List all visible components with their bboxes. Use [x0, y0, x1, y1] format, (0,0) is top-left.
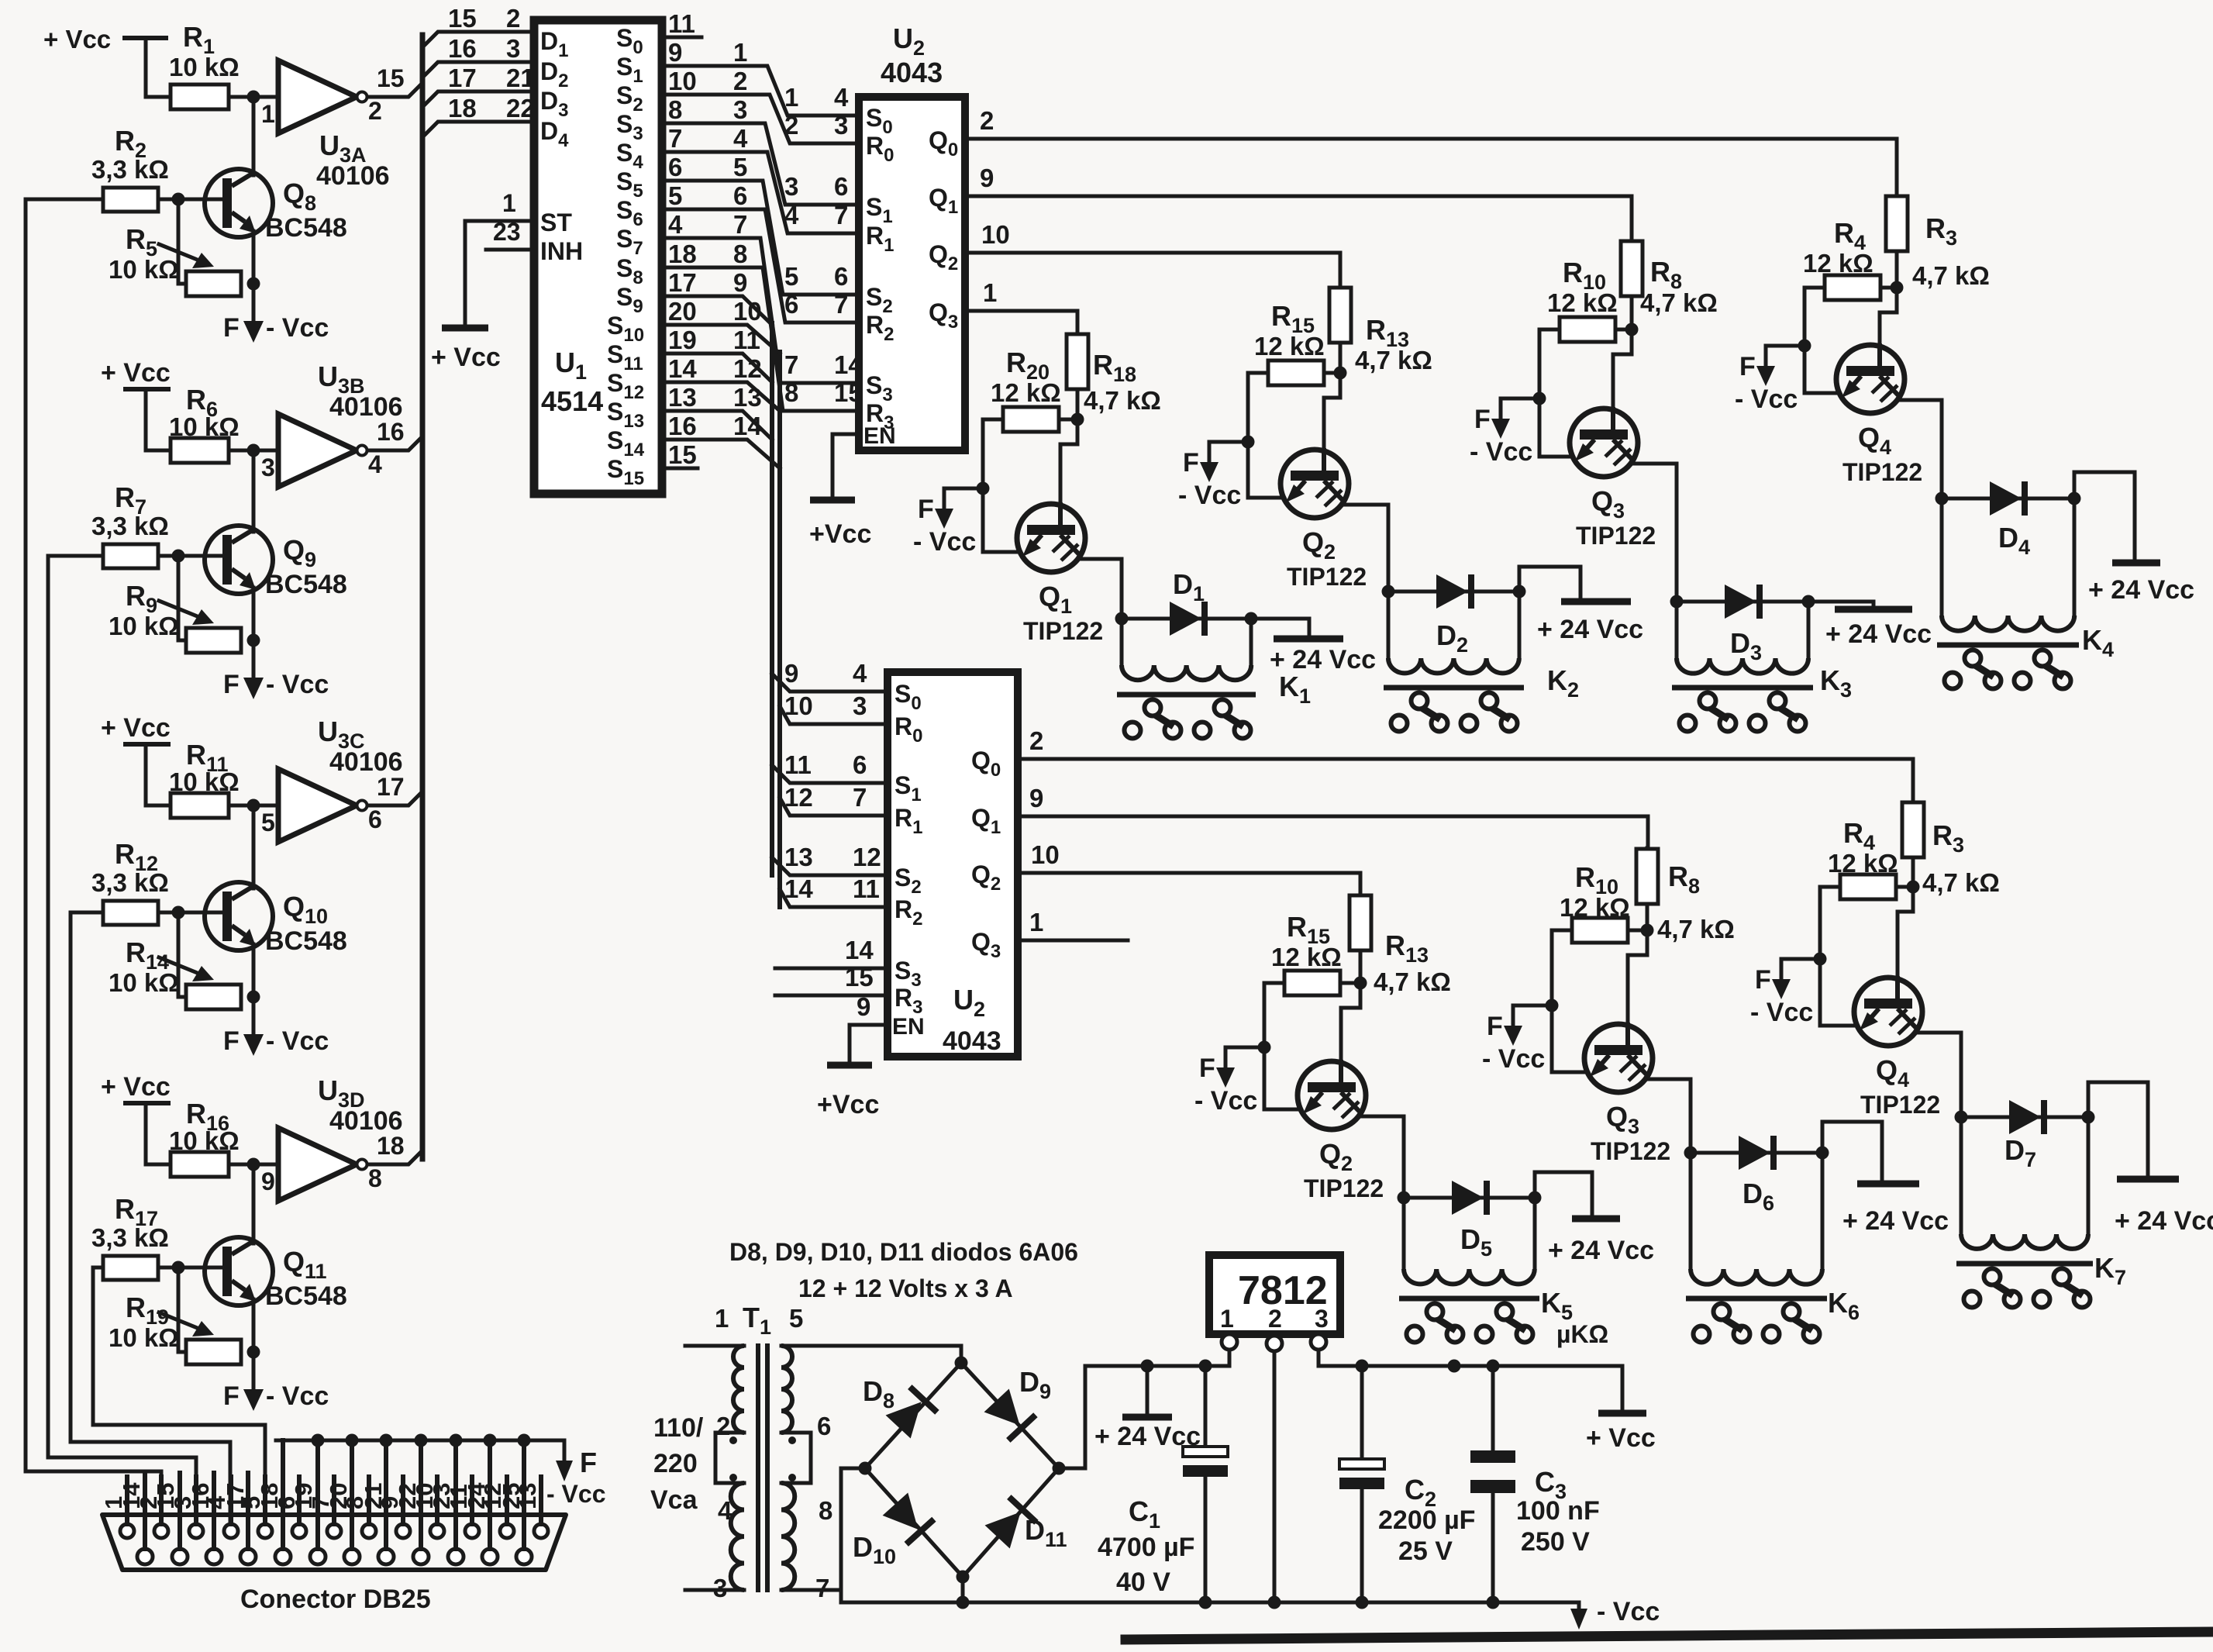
wire base junction down to R9: [178, 556, 186, 640]
svg-text:16: 16: [187, 1483, 214, 1509]
node T1 secondary dots: [788, 1436, 796, 1481]
pin S6 label U1: [616, 196, 643, 230]
node ground pin 22 DB25: [415, 1434, 428, 1447]
wire to +24 ground ch5: [1535, 1172, 1592, 1215]
relay K1 contacts: [1125, 700, 1251, 739]
transformer T1 core: [758, 1346, 767, 1590]
svg-text:3: 3: [733, 95, 747, 124]
svg-text:6: 6: [834, 172, 848, 201]
node base junction Q8: [172, 193, 185, 206]
wire emitter Q9 down: [252, 588, 256, 674]
pin 9 DB25: [376, 1477, 410, 1538]
wire number 4 (S4 line): [733, 124, 748, 153]
node bottom rail C2: [1356, 1596, 1369, 1609]
pin S0 label U2b: [895, 680, 922, 714]
pin S10 label U1: [607, 312, 644, 346]
resistor R18 labels ch1: [1084, 349, 1161, 415]
svg-text:3,3 kΩ: 3,3 kΩ: [91, 1223, 169, 1252]
pin R1 label U2a: [866, 222, 894, 256]
svg-text:12 + 12 Volts x 3 A: 12 + 12 Volts x 3 A: [798, 1274, 1013, 1302]
relay K6 contacts: [1694, 1304, 1820, 1343]
pin 11 DB25: [445, 1477, 479, 1538]
pin Q1 label U2b: [971, 804, 1001, 838]
resistor R4 labels ch7: [1828, 817, 1898, 878]
svg-text:F: F: [223, 1381, 240, 1411]
node rail/C2 junction: [1356, 1360, 1369, 1373]
resistor R1 label: [169, 21, 240, 81]
pin number Q2 U2b: [1031, 840, 1060, 869]
inverter U3C: [278, 769, 367, 842]
pin 5 DB25: [238, 1477, 272, 1538]
wire number 8 (S8 line): [733, 240, 747, 268]
svg-text:5: 5: [668, 181, 682, 210]
wire bridge edge R-B: [963, 1468, 1059, 1577]
ground F -Vcc (block C): [223, 1026, 329, 1056]
resistor R10 ch6 (12k): [1572, 918, 1628, 943]
resistor R15 ch5 (12k): [1284, 971, 1340, 995]
transistor Q10: [205, 882, 273, 950]
wire Q1 bus U2b to R8 ch6: [1018, 816, 1648, 849]
wire base junction down to R14: [178, 912, 186, 997]
svg-text:7: 7: [834, 290, 848, 319]
pin numbers S0 U2b: [784, 659, 867, 688]
svg-text:16: 16: [377, 418, 405, 446]
svg-text:3: 3: [506, 34, 520, 63]
ground +24 Vcc (C1): [1094, 1366, 1201, 1451]
wire +Vcc to R11: [146, 744, 171, 805]
diode D2 label: [1436, 619, 1468, 657]
diode D6 label: [1742, 1178, 1774, 1215]
resistor R3 ch4 (4,7k vertical): [1886, 196, 1908, 251]
relay K5 coil: [1399, 1269, 1539, 1298]
svg-text:F: F: [1487, 1012, 1503, 1041]
wire U3A output to vertical bus: [367, 83, 422, 97]
svg-text:- Vcc: - Vcc: [1482, 1044, 1545, 1074]
wire S2 to U2a: [662, 95, 859, 143]
wire to +24 ground ch4: [2074, 472, 2135, 559]
wire base to Q4 ch4: [1880, 288, 1897, 345]
wire R7 to base: [158, 554, 223, 558]
svg-text:3,3 kΩ: 3,3 kΩ: [91, 155, 169, 184]
inverter U3B: [278, 414, 367, 487]
transistor Q8: [205, 169, 273, 237]
pin labels T1 secondary: [815, 1412, 832, 1602]
pin 1 DB25: [100, 1477, 134, 1538]
svg-text:F: F: [1739, 352, 1756, 381]
node D4 anode junction: [1936, 492, 1949, 505]
wire S10 into bundle: [662, 325, 780, 354]
resistor R15 labels ch5: [1271, 911, 1342, 971]
relay K4 label: [2082, 624, 2114, 661]
svg-text:4,7 kΩ: 4,7 kΩ: [1657, 915, 1735, 943]
pin number S7 U1: [668, 210, 683, 239]
relay K5 contacts: [1407, 1304, 1533, 1343]
svg-text:17: 17: [448, 64, 477, 92]
pin 16 DB25: [187, 1473, 222, 1564]
wire to +24 ground ch7: [2088, 1082, 2148, 1175]
svg-text:23: 23: [493, 218, 521, 246]
wire R15 left to emitter rail ch5: [1264, 983, 1301, 1109]
node ground pin 20 DB25: [346, 1434, 359, 1447]
ground F -Vcc ch2: [1178, 442, 1248, 510]
resistor R14 (preset): [186, 985, 241, 1009]
wire R4 left to emitter rail ch4: [1805, 288, 1839, 393]
node D1 cathode junction: [1245, 612, 1258, 626]
ground bar +24 ch4: [2112, 560, 2160, 567]
resistor R8 ch6 (4,7k vertical): [1636, 849, 1658, 904]
node F junction ch4: [1798, 340, 1811, 353]
wire S0 stub: [662, 36, 701, 40]
svg-text:+ Vcc: + Vcc: [101, 713, 171, 743]
pin numbers R1 U2a: [784, 201, 848, 229]
svg-text:F: F: [1183, 448, 1199, 478]
wire bus pin4 (from R12): [71, 912, 230, 1524]
svg-text:21: 21: [360, 1483, 387, 1509]
wire R16 to inverter input: [229, 1163, 278, 1167]
wire T1 primary bottom lead: [685, 1588, 744, 1592]
svg-text:TIP122: TIP122: [1842, 458, 1922, 486]
svg-text:2: 2: [980, 106, 994, 135]
svg-text:13: 13: [733, 383, 762, 412]
pin number S13 U1: [668, 383, 697, 412]
svg-text:BC548: BC548: [265, 570, 347, 599]
ground bar +24 ch3: [1835, 606, 1912, 613]
pin numbers U3B output: [368, 418, 405, 478]
wire to +24 ground ch2: [1519, 567, 1580, 598]
wire bundle to U2b pin 4: [772, 857, 888, 875]
wire number 6 (S6 line): [733, 181, 747, 210]
transistor Q3 label ch6: [1591, 1101, 1670, 1165]
svg-text:15: 15: [448, 4, 477, 33]
svg-text:+ Vcc: + Vcc: [101, 358, 171, 388]
wire bridge right to +24 rail: [1059, 1366, 1229, 1468]
wire R4 to junction ch4: [1880, 286, 1897, 290]
wire 7812 pin2 to bottom rail: [1273, 1351, 1277, 1602]
svg-text:4514: 4514: [541, 385, 603, 417]
connector DB25 body: [102, 1515, 566, 1570]
transistor Q10 label: [265, 891, 347, 956]
resistor R8 labels ch3: [1640, 256, 1718, 317]
wire R17 to base: [158, 1266, 223, 1270]
node +24 Vcc label ch4: [2088, 575, 2194, 605]
pin 12 DB25: [479, 1477, 514, 1538]
pin number Q0 U2b: [1029, 726, 1043, 755]
relay K6 label: [1828, 1287, 1860, 1324]
resistor R16: [171, 1152, 229, 1177]
node base junction ch7: [1907, 881, 1920, 894]
wire collector Q3 to relay ch6: [1648, 1079, 1691, 1153]
svg-text:12: 12: [853, 843, 881, 871]
svg-text:15: 15: [377, 64, 405, 92]
pin numbers R3 U2a: [784, 378, 863, 407]
node inverter U3D input junction: [247, 1158, 275, 1196]
resistor R19 label: [109, 1292, 179, 1352]
wire S1 to U2a: [662, 66, 859, 116]
node inverter U3C input junction: [247, 799, 275, 837]
wire R3 to junction ch4: [1895, 251, 1899, 288]
wire +Vcc to R1: [146, 38, 171, 97]
ground F -Vcc ch7: [1750, 959, 1820, 1027]
pin numbers R1 U2b: [784, 783, 867, 812]
diode D1 ch1: [1122, 602, 1251, 636]
svg-text:220: 220: [653, 1449, 698, 1478]
pin number Q3 U2b: [1029, 908, 1043, 936]
node emitter/R9 junction: [247, 634, 260, 647]
relay K7 label: [2094, 1252, 2126, 1289]
svg-text:5: 5: [733, 153, 747, 181]
diode D3 label: [1730, 627, 1762, 664]
inverter U3D: [278, 1128, 367, 1201]
text diodes note: [729, 1238, 1078, 1266]
svg-text:TIP122: TIP122: [1023, 617, 1103, 645]
pin S3 label U1: [616, 110, 643, 144]
wire bundle to U2b pin 5: [780, 889, 888, 907]
wire relay K7 right lead: [2087, 1117, 2091, 1234]
pin number S12 U1: [668, 354, 697, 383]
wire relay K6 right lead: [1821, 1153, 1825, 1269]
svg-text:9: 9: [1029, 784, 1043, 812]
wire inverter output bus vertical: [420, 35, 426, 1159]
resistor R7 label: [91, 481, 169, 540]
pin S4 label U1: [616, 139, 643, 173]
wire bus pin3 (from R7): [48, 556, 196, 1524]
svg-text:100 nF: 100 nF: [1516, 1496, 1600, 1526]
wire number 11 (S11 line): [733, 326, 760, 354]
diode D8: [884, 1385, 939, 1440]
wire 7812 pin3 +Vcc rail: [1318, 1350, 1622, 1410]
svg-text:20: 20: [325, 1483, 352, 1509]
ground -Vcc arrow: [1570, 1597, 1660, 1630]
wire R20 to junction ch1: [1059, 418, 1077, 422]
diode D10: [881, 1492, 936, 1547]
node D5 cathode junction: [1529, 1192, 1542, 1205]
svg-text:Conector DB25: Conector DB25: [240, 1585, 431, 1614]
pin S3 U2b: [775, 936, 922, 991]
wire base to Q3 ch6: [1628, 930, 1647, 1024]
arrow R19 pointer: [159, 1312, 214, 1336]
wire bus pin2 (from R2): [26, 199, 161, 1524]
svg-text:2: 2: [506, 4, 520, 33]
diode D6 ch6: [1691, 1136, 1822, 1170]
svg-text:4043: 4043: [943, 1026, 1001, 1056]
resistor R4 labels ch4: [1803, 217, 1873, 278]
wire bus into R8 ch3: [1630, 240, 1634, 241]
pin number Q2 U2a: [981, 220, 1010, 249]
wire D3 line to U1: [422, 91, 534, 107]
svg-text:19: 19: [290, 1483, 317, 1509]
wire Q2 bus U2a to R13 ch2: [965, 253, 1340, 288]
wire S15 stub: [662, 467, 698, 471]
wire R2 to base: [158, 198, 223, 202]
resistor R20 labels ch1: [991, 347, 1061, 407]
svg-text:15: 15: [845, 963, 874, 992]
transistor Q2 label ch2: [1287, 526, 1367, 591]
svg-text:20: 20: [668, 297, 697, 326]
wire bus into R13 ch5: [1359, 895, 1363, 895]
svg-text:6: 6: [817, 1412, 831, 1440]
wire number 3 (S3 line): [733, 95, 747, 124]
wire R3 to junction ch7: [1911, 857, 1915, 887]
ground F -Vcc ch5: [1194, 1047, 1264, 1116]
relay K5 label: [1541, 1287, 1573, 1324]
wire bundle to U2b pin 3: [780, 798, 888, 816]
node +Vcc (block A): [43, 25, 166, 53]
pin R0 label U2b: [895, 712, 922, 747]
svg-text:F: F: [918, 495, 934, 524]
wire R10 left to emitter rail ch6: [1552, 930, 1587, 1072]
resistor R15 labels ch2: [1254, 300, 1325, 360]
svg-text:2: 2: [716, 1412, 730, 1440]
node F junction ch3: [1533, 392, 1546, 405]
pin S15 label U1: [607, 455, 644, 489]
pin Q0 label U2b: [971, 747, 1001, 781]
wire D1 line to U1: [422, 32, 534, 47]
relay K7 contacts: [1964, 1269, 2091, 1308]
node +Vcc (block D): [101, 1072, 171, 1103]
svg-text:F: F: [1199, 1054, 1215, 1083]
IC U2b (lower 4043) box: [888, 672, 1018, 1057]
pin 8 DB25: [341, 1477, 376, 1538]
arrow R9 pointer: [159, 601, 214, 625]
wire R8 to junction ch6: [1646, 904, 1649, 930]
ground bar +24 ch2: [1561, 598, 1631, 605]
transformer T1 secondary winding lower: [781, 1483, 795, 1590]
resistor R4 ch4 (12k): [1825, 275, 1880, 300]
node bottom rail pin2: [1268, 1596, 1281, 1609]
wire S9 into bundle: [662, 296, 772, 325]
ground +Vcc at U1 ST: [431, 221, 501, 372]
wire relay K6 left lead: [1689, 1153, 1693, 1269]
wire base to Q4 ch7: [1898, 887, 1913, 978]
pin numbers R2 U2a: [784, 290, 848, 319]
node D6 cathode junction: [1816, 1147, 1829, 1160]
svg-text:+Vcc: +Vcc: [809, 519, 871, 549]
transformer T1 secondary winding upper: [781, 1346, 792, 1433]
svg-text:TIP122: TIP122: [1860, 1091, 1940, 1119]
wire S3 to U2a: [662, 123, 859, 205]
wire bundle to U2b pin 2: [772, 765, 888, 783]
pin S2 label U2a: [866, 283, 893, 317]
svg-text:- Vcc: - Vcc: [266, 670, 329, 699]
pin 7 DB25: [307, 1477, 341, 1538]
transistor Q4 ch7 (TIP122): [1854, 976, 1922, 1046]
pin numbers U3A output: [368, 64, 405, 125]
op-amp U3D label: [318, 1074, 403, 1136]
wire R6 to inverter input: [229, 449, 278, 453]
wire U3C output to vertical bus: [367, 792, 422, 805]
svg-text:3: 3: [713, 1574, 727, 1602]
wire S12 into bundle: [662, 382, 780, 411]
wire bus into R8 ch6: [1646, 848, 1649, 849]
transformer T1 secondary tap bracket: [781, 1433, 811, 1483]
svg-text:14: 14: [834, 350, 863, 379]
wire number 13 (S13 line): [733, 383, 762, 412]
svg-text:16: 16: [448, 34, 477, 63]
pin S11 label U1: [607, 340, 643, 374]
wire R10 to junction ch3: [1615, 328, 1632, 332]
ground F -Vcc ch6: [1482, 1005, 1552, 1074]
pin EN label U2a: [863, 423, 896, 449]
svg-text:µKΩ: µKΩ: [1556, 1320, 1608, 1348]
node F junction ch1: [977, 482, 990, 495]
node F junction ch7: [1814, 953, 1827, 966]
diode D11 label: [1025, 1514, 1067, 1551]
svg-text:6: 6: [668, 153, 682, 181]
svg-text:1: 1: [983, 278, 997, 307]
pin number S14 U1: [668, 412, 697, 440]
svg-text:2: 2: [733, 67, 747, 95]
svg-text:4,7 kΩ: 4,7 kΩ: [1912, 261, 1990, 290]
pin number S9 U1: [668, 268, 697, 297]
svg-text:14: 14: [668, 354, 697, 383]
svg-text:7: 7: [733, 210, 747, 239]
node base junction ch2: [1334, 367, 1347, 380]
svg-text:4,7 kΩ: 4,7 kΩ: [1640, 288, 1718, 317]
pin numbers U3C output: [368, 773, 405, 833]
svg-text:11: 11: [853, 874, 880, 903]
svg-text:9: 9: [784, 659, 798, 688]
text 110/220 Vca: [650, 1413, 704, 1515]
transistor Q11: [205, 1237, 273, 1305]
wire S7 to U2a: [662, 238, 859, 383]
node +24 Vcc label ch1: [1270, 645, 1376, 674]
pin S9 label U1: [616, 283, 643, 317]
wire base junction down to R5: [178, 199, 186, 284]
arrow R5 pointer: [159, 244, 214, 268]
transistor Q4 label ch7: [1860, 1054, 1940, 1119]
wire bridge edge L-B: [865, 1468, 963, 1577]
wire EN U2a to ground: [832, 434, 859, 497]
svg-text:- Vcc: - Vcc: [1194, 1086, 1257, 1116]
resistor R8 ch3 (4,7k vertical): [1621, 241, 1643, 296]
svg-text:5: 5: [784, 262, 798, 291]
ground F -Vcc (block B): [223, 670, 329, 699]
svg-text:+ Vcc: + Vcc: [101, 1072, 171, 1102]
wire bundle vertical 1: [770, 323, 774, 875]
wire S14 into bundle: [662, 440, 780, 468]
node ground pin 25 DB25: [518, 1434, 531, 1447]
wire bundle to U2b pin 1: [780, 706, 888, 724]
node D1 anode junction: [1115, 612, 1129, 626]
svg-text:15: 15: [834, 378, 863, 407]
wire collector Q2 to relay ch5: [1361, 1116, 1404, 1198]
node D5 anode junction: [1398, 1192, 1411, 1205]
pin Q1 label U2a: [929, 184, 958, 218]
wire R13 to junction ch2: [1339, 343, 1343, 373]
pin Q3 label U2b: [971, 928, 1001, 962]
pin number S5 U1: [668, 153, 682, 181]
wire Q1 bus U2a to R8 ch3: [965, 196, 1632, 241]
resistor R7: [103, 544, 158, 568]
svg-text:18: 18: [256, 1483, 283, 1509]
wire Q0 bus U2a to R3 ch4: [965, 139, 1897, 196]
svg-text:12 kΩ: 12 kΩ: [991, 378, 1061, 407]
wire D2 line to U1: [422, 62, 534, 78]
svg-text:10 kΩ: 10 kΩ: [109, 255, 179, 284]
wire bus to R17: [93, 1266, 103, 1270]
svg-text:3: 3: [261, 454, 275, 481]
svg-text:15: 15: [668, 440, 697, 469]
pin number Q1 U2a: [980, 164, 994, 192]
svg-text:17: 17: [377, 773, 405, 801]
wire relay K7 left lead: [1960, 1117, 1963, 1234]
IC 7812 box: [1209, 1255, 1340, 1334]
node inverter U3B input junction: [247, 444, 275, 482]
node bridge top: [955, 1357, 968, 1370]
node rail/C1 junction: [1199, 1360, 1212, 1373]
transistor Q8 label: [265, 178, 347, 243]
svg-text:1: 1: [261, 100, 275, 128]
